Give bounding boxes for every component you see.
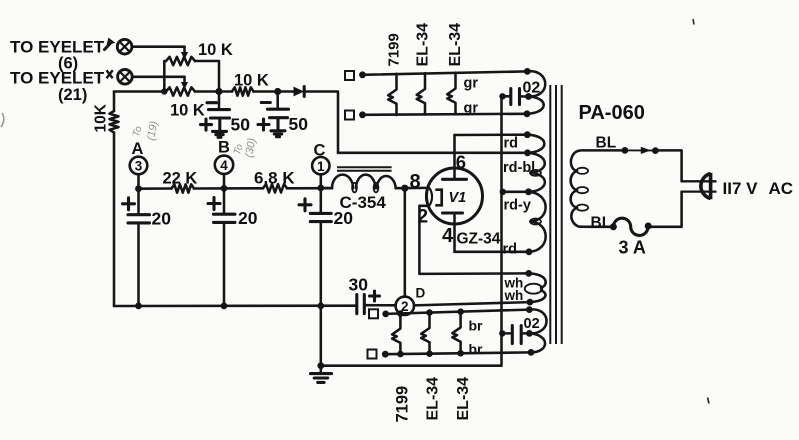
heater EL-34 a (top group) (417, 73, 425, 114)
HV winding arcs (527, 135, 545, 252)
capacitor 50uF (second, at x278) (258, 92, 289, 131)
node junction cap C bottom (317, 303, 324, 310)
node dot heater top bus (359, 71, 366, 78)
AC plug body (701, 173, 711, 199)
wire heater bottom bus (363, 114, 528, 115)
wire pot1 left bridge (164, 61, 166, 92)
tube plate (pin 4) (443, 213, 463, 252)
resistor 6.8K (263, 184, 287, 192)
wire bottom heater top bus (386, 310, 530, 314)
transformer 5V winding (wh) (525, 270, 546, 306)
wire D to 5V winding bottom (414, 302, 530, 305)
switch arrow (641, 147, 651, 154)
terminal 3 (node A) (130, 157, 148, 189)
wire diode to corner (304, 92, 338, 153)
svg-text:50: 50 (289, 114, 309, 134)
diode (bias rectifier) (294, 87, 305, 97)
svg-text:10 K: 10 K (198, 41, 233, 59)
wire pin6 to HV winding top (455, 133, 528, 136)
node dot heater bottom bus (359, 111, 366, 118)
node junction cap A bottom (135, 303, 142, 310)
svg-text:V1: V1 (449, 190, 467, 206)
wire 22K to node B (194, 187, 263, 190)
node junction heater EL-34a top (bottom group) (426, 309, 433, 316)
node junction B (221, 185, 228, 192)
terminal 1 (node C) (312, 157, 329, 188)
capacitor 20uF (node C) (299, 188, 331, 306)
wire main line left segment (114, 90, 166, 93)
wire pin2 to 5V winding top (419, 206, 528, 274)
svg-text:rd-bl: rd-bl (503, 160, 535, 176)
svg-text:rd: rd (504, 136, 519, 152)
capacitor 20uF (node A) (123, 189, 150, 306)
wire eyelet21 to pot2 wiper (132, 76, 184, 79)
tube plate (pin 6) (443, 135, 467, 179)
svg-text:gr: gr (464, 76, 479, 92)
wire pin4 to HV winding bottom (455, 251, 530, 254)
node junction heater EL-34b top (bottom group) (457, 308, 464, 315)
svg-text:3: 3 (135, 159, 143, 174)
svg-text:EL-34: EL-34 (425, 377, 442, 421)
svg-text:gr: gr (464, 101, 479, 117)
switch contact dot (right) (652, 147, 659, 154)
wire pot2 to 10K resistor (195, 90, 232, 93)
svg-text:7199: 7199 (394, 386, 412, 423)
svg-text:22 K: 22 K (163, 170, 198, 188)
heater EL-34 b (bottom group) (452, 312, 460, 353)
svg-text:AC: AC (769, 179, 794, 198)
svg-text:II7 V: II7 V (723, 179, 759, 198)
eyelet terminal (6) (117, 39, 132, 54)
tube cathode bracket (435, 190, 441, 206)
pencil note To (19) (131, 120, 161, 142)
capacitor .02 (gr winding to chassis) (499, 89, 526, 105)
switch contact dot (left) (622, 147, 629, 154)
connector square (heater top bus) (345, 71, 354, 80)
wire chassis line ground to transformer common (321, 96, 502, 365)
ground (main chassis) (311, 366, 332, 383)
node junction pot bridge left (161, 88, 167, 94)
fuse 3A (610, 218, 652, 235)
AC plug prongs (682, 181, 717, 191)
node junction pot bridge right (215, 88, 222, 95)
arrow pointer to eyelet 6 (105, 38, 116, 50)
transformer primary winding (571, 150, 625, 226)
svg-text:3 A: 3 A (619, 238, 646, 258)
scan artifact mark (693, 19, 694, 25)
svg-text:GZ-34: GZ-34 (457, 231, 501, 248)
wire choke to pin8 (396, 187, 427, 190)
svg-text:10 K: 10 K (170, 102, 205, 120)
heater EL-34 a (bottom group) (421, 313, 429, 354)
connector square (bottom heater top bus) (369, 309, 378, 318)
transformer HV winding (rd) top end (524, 131, 531, 138)
svg-text:wh: wh (504, 288, 524, 303)
resistor 10K (vertical, left) (113, 92, 116, 112)
svg-text:C-354: C-354 (340, 193, 387, 212)
potentiometer 10K (lower, in line) (166, 87, 195, 95)
pot2 wiper arrow (181, 77, 188, 90)
node junction at ground (317, 362, 324, 369)
svg-text:4: 4 (442, 225, 454, 247)
resistor 10K (series, horizontal) (232, 87, 254, 95)
node junction heater EL-34a bottom (bottom group) (426, 350, 433, 357)
potentiometer 10K (upper) (166, 57, 195, 65)
node junction heater 7199 top (bottom group) (397, 310, 404, 317)
wire left vertical down to bottom bus (113, 133, 116, 307)
wire 10K resistor to diode (254, 90, 294, 93)
connector square (bottom heater bottom bus) (368, 350, 377, 359)
wire rd-y tap to chassis line (503, 191, 529, 194)
transformer core laminations (550, 85, 561, 344)
scan artifact tick bottom right (708, 398, 710, 404)
wire 6.8K to node C (287, 187, 332, 190)
svg-text:rd-y: rd-y (504, 198, 531, 214)
node dot rd-bl tap (524, 149, 531, 156)
svg-text:30: 30 (349, 275, 369, 295)
svg-text:EL-34: EL-34 (455, 377, 472, 421)
wire fuse to plug (648, 192, 681, 227)
pot1 wiper arrow (181, 47, 188, 60)
svg-text:8: 8 (410, 171, 421, 193)
capacitor 50uF (first, at x219) (201, 92, 230, 131)
svg-text:50: 50 (231, 114, 251, 134)
tube filament (426, 188, 432, 206)
svg-text:TO EYELET: TO EYELET (10, 69, 105, 88)
heater EL-34 b (top group) (447, 73, 455, 114)
ground (under second 50uF cap) (271, 131, 285, 137)
wire bottom ground bus (114, 304, 357, 307)
wire rd-bl tap to bias supply (338, 152, 528, 155)
transformer 6.3V winding (gr) (524, 68, 546, 117)
wire node C cap down to ground (320, 306, 323, 366)
connector square (heater bottom bus) (345, 111, 354, 120)
node dot rd-y center tap (525, 188, 532, 195)
svg-text:br: br (469, 318, 484, 334)
svg-text:rd: rd (503, 242, 518, 258)
svg-text:6: 6 (456, 152, 466, 173)
pencil note To (30) (232, 137, 259, 159)
node dot rd bottom end (526, 248, 533, 255)
node dot bottom heater bottom bus (382, 351, 389, 358)
wire eyelet6 to pot1 wiper (132, 45, 185, 48)
wire pot1 right bridge (195, 61, 219, 92)
eyelet terminal (21) (118, 70, 133, 85)
inductor choke C-354 (321, 175, 396, 193)
wire primary top to plug (655, 150, 681, 181)
capacitor 30uF (node D filter) (357, 291, 396, 314)
svg-text:10 K: 10 K (234, 72, 269, 90)
svg-text:02: 02 (524, 316, 540, 332)
svg-text:EL-34: EL-34 (447, 23, 464, 67)
capacitor 20uF (node B) (208, 188, 235, 306)
svg-text:B: B (218, 139, 230, 157)
wire bottom heater bottom bus (385, 352, 531, 354)
svg-text:02: 02 (523, 80, 541, 97)
capacitor .02 (br winding to chassis) (499, 326, 526, 344)
tube V1 GZ-34 envelope (427, 168, 483, 224)
node junction chassis at rd-y (500, 189, 506, 195)
node dot bottom heater top bus (382, 311, 389, 318)
svg-text:20: 20 (238, 208, 258, 228)
svg-text:6.8 K: 6.8 K (254, 169, 295, 188)
node junction A (135, 185, 142, 192)
svg-text:BL: BL (596, 135, 617, 152)
svg-text:A: A (132, 140, 144, 158)
resistor 22K (172, 184, 195, 192)
heater 7199 (bottom group) (392, 314, 400, 355)
svg-text:1: 1 (317, 159, 325, 174)
node junction heater 7199 bottom (bottom group) (397, 351, 404, 358)
terminal 4 (node B) (215, 156, 233, 189)
svg-text:4: 4 (220, 158, 228, 173)
x mark at eyelet 21 (107, 70, 113, 78)
svg-text:(21): (21) (58, 86, 87, 104)
node junction heater EL-34b bottom (bottom group) (457, 350, 464, 357)
heater 7199 (top group) (388, 74, 396, 115)
wire switch segment (625, 149, 656, 151)
transformer 6.3V winding (br) (526, 306, 547, 356)
terminal 2 (node D) (396, 297, 414, 315)
node junction cap B bottom (221, 303, 228, 310)
svg-text:br: br (469, 341, 484, 357)
scan artifact pencil mark left edge (1, 113, 4, 127)
node junction at cap2 top (274, 88, 281, 95)
svg-text:PA-060: PA-060 (579, 102, 645, 124)
wire node line A-B (139, 187, 172, 190)
node junction pin8/B+ (401, 185, 408, 192)
choke core bars (337, 167, 392, 171)
svg-text:10K: 10K (93, 103, 110, 132)
svg-text:BL: BL (591, 214, 612, 231)
wire B+ down to node D (404, 188, 407, 296)
ground (under first 50uF cap) (213, 131, 227, 137)
svg-text:20: 20 (152, 208, 172, 228)
svg-text:EL-34: EL-34 (415, 23, 432, 67)
wire heater top bus (363, 71, 528, 74)
svg-text:7199: 7199 (386, 33, 403, 66)
svg-text:D: D (416, 286, 426, 301)
node junction C (317, 185, 324, 192)
svg-text:TO EYELET: TO EYELET (10, 37, 105, 56)
